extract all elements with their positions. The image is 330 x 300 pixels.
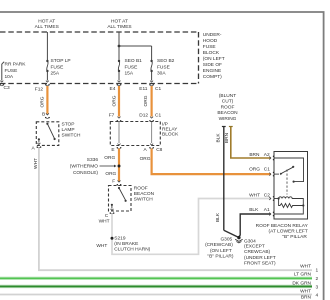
svg-text:C2: C2 — [264, 193, 270, 199]
svg-text:CUT): CUT) — [222, 99, 234, 105]
svg-text:F12: F12 — [35, 86, 44, 92]
svg-text:E11: E11 — [139, 86, 148, 92]
svg-text:4: 4 — [315, 293, 318, 299]
svg-text:F: F — [112, 178, 115, 184]
svg-text:SIDE OF: SIDE OF — [203, 62, 222, 68]
svg-text:C1: C1 — [264, 166, 270, 172]
svg-text:HOT AT: HOT AT — [111, 18, 128, 24]
svg-text:(BLUNT: (BLUNT — [219, 93, 236, 99]
svg-text:BRN: BRN — [224, 132, 230, 143]
svg-text:CREWCAB): CREWCAB) — [244, 249, 271, 255]
svg-text:ORG: ORG — [105, 171, 116, 177]
svg-text:15A: 15A — [125, 71, 134, 77]
svg-text:B: B — [42, 111, 45, 117]
svg-text:FUSE: FUSE — [5, 68, 18, 74]
svg-text:BLOCK: BLOCK — [162, 131, 179, 137]
svg-text:30A: 30A — [157, 71, 166, 77]
svg-text:SEO B1: SEO B1 — [125, 58, 143, 64]
svg-text:(CREWCAB): (CREWCAB) — [205, 242, 233, 248]
svg-text:(UNDER LEFT: (UNDER LEFT — [244, 255, 276, 261]
svg-text:A1: A1 — [264, 207, 270, 213]
svg-text:DK GRN: DK GRN — [292, 280, 311, 286]
svg-text:FUSE: FUSE — [203, 44, 216, 50]
svg-text:(IN BRAKE: (IN BRAKE — [114, 241, 138, 247]
svg-text:D12: D12 — [139, 113, 148, 119]
svg-text:(AT LOWER LEFT: (AT LOWER LEFT — [269, 229, 308, 235]
svg-text:A2: A2 — [264, 152, 270, 158]
svg-text:WHT: WHT — [99, 219, 110, 225]
svg-text:C: C — [105, 213, 109, 219]
svg-text:ENGINE: ENGINE — [203, 68, 221, 74]
svg-text:ALL TIMES: ALL TIMES — [35, 24, 59, 30]
svg-text:WHT: WHT — [300, 263, 311, 269]
svg-text:FUSE: FUSE — [157, 64, 170, 70]
svg-text:BLK: BLK — [215, 133, 221, 143]
svg-text:SWITCH: SWITCH — [62, 132, 81, 138]
svg-text:G305: G305 — [220, 236, 232, 242]
svg-text:BLK: BLK — [215, 212, 221, 222]
svg-text:S336: S336 — [87, 157, 99, 163]
svg-text:(EXCEPT: (EXCEPT — [244, 243, 265, 249]
svg-text:A: A — [144, 147, 148, 153]
svg-text:(ON LEFT: (ON LEFT — [203, 56, 225, 62]
svg-text:ORG: ORG — [249, 166, 260, 172]
svg-text:WHT: WHT — [300, 288, 311, 294]
svg-text:HOT AT: HOT AT — [38, 18, 55, 24]
svg-text:ORG: ORG — [112, 95, 118, 106]
svg-text:(ON LEFT: (ON LEFT — [210, 248, 232, 254]
svg-text:E: E — [111, 147, 114, 153]
svg-text:"B" PILLAR: "B" PILLAR — [282, 234, 307, 240]
svg-text:FUSE: FUSE — [125, 64, 138, 70]
svg-text:F7: F7 — [109, 113, 115, 119]
svg-text:FUSE: FUSE — [51, 64, 64, 70]
svg-text:RR PARK: RR PARK — [5, 62, 27, 68]
svg-text:COMPT): COMPT) — [203, 74, 222, 80]
svg-text:25A: 25A — [51, 71, 60, 77]
svg-text:BLOCK: BLOCK — [203, 50, 220, 56]
svg-text:STOP LP: STOP LP — [51, 58, 71, 64]
svg-text:CONSOLE): CONSOLE) — [73, 170, 98, 176]
svg-text:HOOD: HOOD — [203, 38, 218, 44]
svg-text:LT GRN: LT GRN — [294, 272, 312, 278]
svg-text:C1: C1 — [155, 86, 161, 92]
svg-text:10A: 10A — [5, 74, 14, 80]
svg-text:BLK: BLK — [249, 207, 259, 213]
svg-text:UNDER-: UNDER- — [203, 32, 222, 38]
svg-text:2: 2 — [315, 276, 318, 282]
svg-text:BEACON: BEACON — [134, 191, 155, 197]
svg-text:C8: C8 — [156, 147, 162, 153]
svg-text:ALL TIMES: ALL TIMES — [107, 24, 131, 30]
svg-text:C1: C1 — [155, 113, 161, 119]
svg-text:LAMP: LAMP — [62, 127, 75, 133]
svg-text:FRONT SEAT): FRONT SEAT) — [244, 261, 276, 267]
svg-text:ROOF BEACON RELAY: ROOF BEACON RELAY — [256, 223, 309, 229]
svg-text:SWITCH: SWITCH — [134, 197, 153, 203]
svg-text:(W/THERMO: (W/THERMO — [70, 164, 99, 170]
svg-text:C3: C3 — [4, 85, 10, 91]
svg-text:CLUTCH HARN): CLUTCH HARN) — [114, 247, 150, 253]
svg-text:WHT: WHT — [249, 193, 260, 199]
svg-text:ROOF: ROOF — [134, 186, 148, 192]
svg-text:ROOF: ROOF — [221, 104, 235, 110]
svg-text:ORG: ORG — [143, 95, 149, 106]
svg-text:WHT: WHT — [96, 243, 107, 249]
svg-text:ORG: ORG — [104, 155, 115, 161]
svg-text:WHT: WHT — [33, 158, 39, 169]
svg-text:ORG: ORG — [140, 156, 151, 162]
svg-text:ORG: ORG — [40, 96, 46, 107]
svg-text:E4: E4 — [110, 86, 116, 92]
svg-text:SEO B2: SEO B2 — [157, 58, 175, 64]
svg-text:S219: S219 — [114, 236, 126, 242]
svg-text:BRN: BRN — [301, 294, 312, 300]
svg-text:STOP: STOP — [62, 121, 75, 127]
svg-text:A: A — [32, 146, 36, 152]
svg-text:BRN: BRN — [249, 152, 260, 158]
svg-text:WIRING: WIRING — [219, 116, 237, 122]
svg-text:1: 1 — [315, 267, 318, 273]
svg-text:BEACON: BEACON — [217, 110, 238, 116]
svg-text:3: 3 — [315, 285, 318, 291]
svg-text:"B" PILLAR): "B" PILLAR) — [207, 254, 233, 260]
